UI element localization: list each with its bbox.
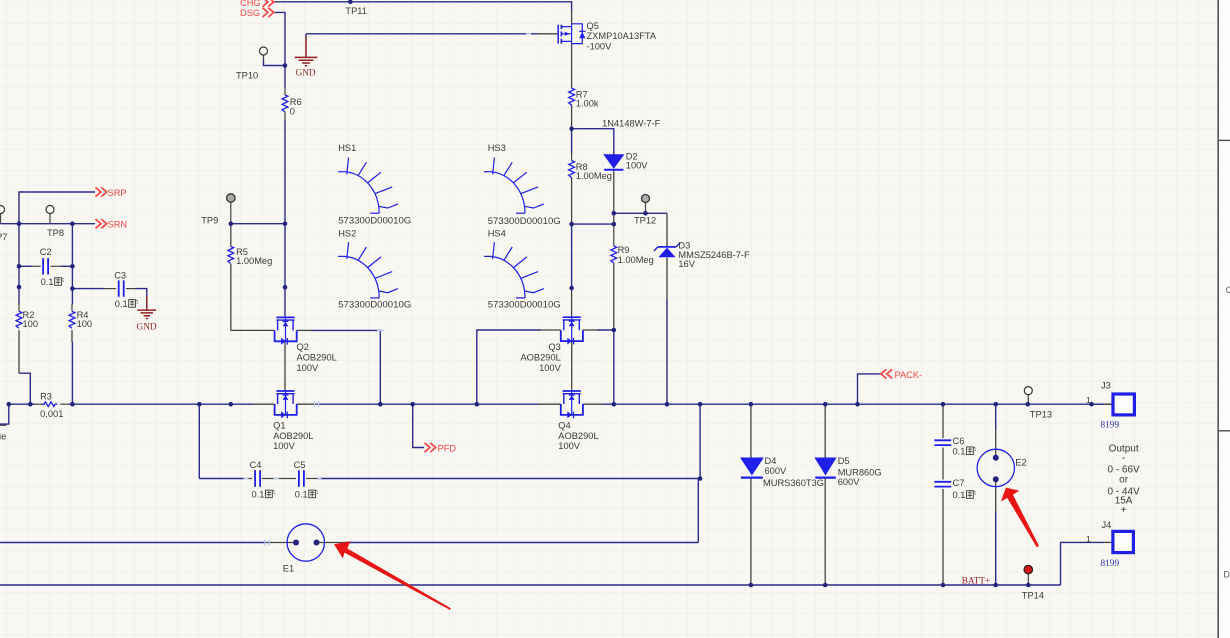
- svg-text:SRP: SRP: [108, 188, 127, 198]
- resistor R3 (horizontal): [42, 402, 58, 407]
- svg-text:TP11: TP11: [345, 6, 367, 16]
- wire R3 right pin: [60, 403, 69, 405]
- wire junction down to R8: [571, 129, 573, 153]
- test point TP13: [1024, 387, 1032, 395]
- wire riser bus to E1 row: [698, 404, 700, 542]
- svg-text:0.1: 0.1: [295, 490, 308, 500]
- resistor R7: [569, 88, 575, 105]
- wire TP10 lead: [263, 55, 265, 61]
- wire R8 row to D2/R9 column: [572, 223, 614, 225]
- wire DSG to R6 column: [274, 12, 286, 65]
- wire cap row to riser: [318, 478, 701, 480]
- svg-text:R6: R6: [290, 97, 302, 107]
- svg-text:-100V: -100V: [587, 41, 613, 51]
- svg-text:GND: GND: [137, 323, 157, 333]
- capacitor C4: [255, 470, 260, 486]
- node TP10 junction: [283, 63, 288, 68]
- svg-text:GND: GND: [296, 69, 316, 79]
- svg-text:Q4: Q4: [558, 420, 570, 430]
- heatsink HS4: [484, 242, 544, 298]
- svg-text:AOB290L: AOB290L: [273, 431, 313, 441]
- node column stub B: [569, 286, 574, 291]
- heatsink HS1: [338, 158, 398, 214]
- svg-text:TP12: TP12: [634, 215, 656, 225]
- wire E1 left pin black: [265, 542, 293, 544]
- wire bottom row corner up to J4: [1061, 542, 1105, 585]
- svg-text:8199: 8199: [1101, 559, 1120, 569]
- svg-text:100V: 100V: [297, 363, 320, 373]
- svg-text:100V: 100V: [626, 161, 649, 171]
- wire left column SRP down through C2 row: [18, 224, 20, 267]
- svg-text:0.1: 0.1: [41, 277, 54, 287]
- svg-text:1: 1: [1086, 534, 1091, 544]
- svg-text:HS3: HS3: [488, 143, 506, 153]
- wire main bus segment 1: [9, 403, 35, 405]
- wire E2 column top: [995, 404, 997, 430]
- node SRN row junction 2: [70, 221, 75, 226]
- svg-text:0.1: 0.1: [953, 490, 966, 500]
- svg-text:MURS360T3G: MURS360T3G: [763, 478, 824, 488]
- svg-text:100: 100: [23, 319, 39, 329]
- svg-text:600V: 600V: [838, 477, 861, 487]
- wire D5 column top: [824, 404, 826, 457]
- resistor R6: [282, 95, 288, 112]
- resistor R9: [611, 246, 617, 263]
- node C3 row junction: [70, 286, 75, 291]
- sheet border right edge: [1217, 0, 1219, 638]
- wire Q4 left pin on bus: [538, 403, 561, 405]
- node SRN row junction 1: [17, 221, 22, 226]
- svg-text:1.00Meg: 1.00Meg: [236, 256, 272, 266]
- ground symbol top GND: [295, 57, 318, 65]
- svg-text:D: D: [1224, 570, 1230, 580]
- transistor Q1 AOB290L: [275, 391, 297, 418]
- wire column below R8 row to Q3: [571, 224, 573, 288]
- svg-text:or: or: [1119, 474, 1129, 485]
- diode D2 1N4148W-7-F: [603, 154, 624, 169]
- label Output block: [1107, 444, 1140, 517]
- svg-text:TP9: TP9: [201, 216, 218, 226]
- wire GND stem (dark red): [305, 37, 307, 58]
- wire TP14 stem: [1027, 574, 1029, 586]
- wire C6/C7 column: [942, 404, 944, 438]
- heatsink HS2: [338, 242, 398, 298]
- wire bus to PACK- port: [858, 374, 882, 404]
- transistor Q2 AOB290L: [275, 317, 297, 344]
- sheet border zone tick 2: [1218, 139, 1230, 141]
- svg-text:C2: C2: [40, 247, 52, 257]
- diode D3 MMSZ5246B-7-F zener: [658, 248, 675, 258]
- svg-text:CHG: CHG: [240, 0, 261, 8]
- wire Q4 right pin on bus: [583, 403, 605, 405]
- svg-text:D4: D4: [765, 456, 777, 466]
- resistor R4: [69, 311, 75, 328]
- wire TP12 stem: [645, 202, 647, 213]
- svg-text:R3: R3: [40, 391, 52, 401]
- transistor Q5 ZXMP10A13FTA: [558, 24, 585, 44]
- svg-text:Q1: Q1: [273, 420, 285, 430]
- capacitor C3: [119, 280, 124, 296]
- svg-text:P7: P7: [0, 232, 7, 242]
- svg-text:100V: 100V: [273, 441, 296, 451]
- wire TP7 stem: [0, 213, 2, 223]
- wire E1 row right to riser: [345, 542, 698, 544]
- wire compile cross marks (light blue): [244, 34, 532, 546]
- svg-text:J4: J4: [1102, 520, 1112, 530]
- svg-text:TP14: TP14: [1022, 590, 1044, 600]
- wire main bus segment 2: [69, 403, 253, 405]
- wire left edge component pin stub: [0, 424, 6, 426]
- wire TP8 stem: [49, 213, 51, 223]
- svg-text:R9: R9: [618, 245, 630, 255]
- diode D4 MURS360T3G: [740, 458, 764, 476]
- wire Q5 drain pin (black): [571, 10, 573, 24]
- wire R6 bottom to TP9 row and down to Q2: [284, 112, 286, 121]
- svg-text:100V: 100V: [539, 363, 562, 373]
- wire left column down to R2: [18, 266, 20, 304]
- node D2/TP12 junction: [612, 211, 617, 216]
- resistor R2: [16, 311, 22, 328]
- capacitor C6: [934, 440, 951, 445]
- svg-text:TP13: TP13: [1030, 410, 1052, 420]
- connector E1: [287, 524, 324, 561]
- wire Q2 gate row black R5 col to Q2 box: [231, 329, 275, 331]
- wire D2 cathode down to TP12 row: [613, 170, 615, 224]
- capacitor C7: [934, 482, 951, 487]
- wire Q5 gate net from GND: [306, 33, 539, 35]
- wire R9 column: R8 row down through R9 to Q3 gate row: [613, 224, 615, 246]
- wire TP9 stem: [230, 202, 232, 224]
- svg-text:573300D00010G: 573300D00010G: [488, 300, 561, 311]
- svg-text:PACK-: PACK-: [895, 370, 923, 380]
- diode D5 MUR860G: [814, 458, 836, 476]
- port arrow DSG: [263, 8, 274, 17]
- annotation red arrow at E2: [1001, 488, 1039, 548]
- node TP12 stem junction: [643, 211, 648, 216]
- svg-text:J3: J3: [1101, 381, 1111, 391]
- node R8 row right junction: [612, 222, 617, 227]
- svg-text:C5: C5: [294, 460, 306, 470]
- wire E1 right pin black: [319, 542, 346, 544]
- test point TP8: [46, 206, 54, 214]
- svg-text:HS4: HS4: [488, 229, 506, 239]
- svg-text:C: C: [1226, 285, 1230, 295]
- svg-text:0.1: 0.1: [115, 299, 128, 309]
- wire bus drop to cap row: [198, 404, 200, 478]
- wire D5 column bottom: [824, 478, 826, 585]
- connector J4 8199: [1113, 531, 1134, 552]
- svg-text:E2: E2: [1015, 458, 1026, 468]
- svg-text:HS2: HS2: [338, 229, 356, 239]
- wire GND mid stem (dark red): [146, 296, 148, 310]
- svg-text:D5: D5: [838, 456, 850, 466]
- svg-text:Q5: Q5: [587, 21, 599, 31]
- resistor R5: [228, 247, 234, 264]
- wire main bus segment 4 to J3: [604, 403, 1112, 405]
- port arrow PFD: [425, 443, 436, 452]
- svg-text:Q2: Q2: [297, 342, 309, 352]
- wire bus to PFD port: [413, 404, 424, 447]
- test point TP10: [260, 47, 268, 55]
- svg-text:1.00k: 1.00k: [576, 99, 599, 109]
- wire TP9 row to R6 column: [231, 223, 285, 225]
- wire D4 column top: [750, 404, 752, 457]
- wire TP13 stem: [1027, 395, 1029, 405]
- wire mid column TP8 row down through C2/C3 rows to R4: [71, 224, 73, 289]
- wire Q1 left pin on bus: [252, 403, 274, 405]
- wire C5 right pin: [306, 478, 318, 480]
- svg-text:100: 100: [77, 319, 93, 329]
- wire Q3 gate left drop to bus: [541, 329, 561, 331]
- wire C4-C5 link: [262, 478, 296, 480]
- wire main bus segment 3: [317, 403, 539, 405]
- node Q3 gate / R9 junction: [612, 328, 617, 333]
- svg-text:C4: C4: [250, 460, 262, 470]
- svg-text:+: +: [1121, 505, 1127, 516]
- svg-text:573300D00010G: 573300D00010G: [338, 300, 411, 311]
- svg-text:AOB290L: AOB290L: [558, 431, 598, 441]
- svg-text:0.1: 0.1: [953, 446, 966, 456]
- wire C2 row right pin: [51, 265, 62, 267]
- svg-text:ZXMP10A13FTA: ZXMP10A13FTA: [587, 31, 657, 41]
- capacitor C2: [43, 258, 48, 274]
- transistor Q3 AOB290L: [561, 317, 583, 344]
- wire Q3 right corner to R9 column: [583, 329, 598, 331]
- svg-text:AOB290L: AOB290L: [297, 353, 337, 363]
- wire E1 row left: [0, 542, 266, 544]
- capacitor C5: [299, 470, 304, 486]
- svg-text:DSG: DSG: [240, 8, 260, 18]
- svg-text:Q3: Q3: [548, 342, 560, 352]
- node column stub A: [283, 285, 288, 290]
- svg-text:BATT+: BATT+: [962, 577, 991, 587]
- test point TP7 (partial at left edge): [0, 206, 5, 214]
- svg-text:AOB290L: AOB290L: [520, 353, 560, 363]
- svg-text:100V: 100V: [558, 441, 581, 451]
- wire bottom row BATT+: [0, 584, 1061, 586]
- svg-text:0.1: 0.1: [252, 490, 265, 500]
- wire R2 jog from resistor bottom to bus: [18, 330, 20, 373]
- wire R7/R8 junction row to D2 column: [572, 129, 614, 155]
- wire C3 row from mid column to cap: [72, 288, 104, 290]
- svg-text:1.00Meg: 1.00Meg: [618, 255, 654, 265]
- port arrow CHG: [263, 0, 274, 7]
- test point TP9 (grey): [227, 194, 235, 202]
- node bus junctions: [7, 402, 12, 407]
- wire cap row left to C4: [199, 478, 243, 480]
- node cap row junction: [698, 476, 703, 481]
- svg-text:TP10: TP10: [236, 71, 258, 81]
- wire R5 column black down through R5 to Q2 gate row: [230, 224, 232, 247]
- annotation red arrow at E1: [334, 541, 451, 610]
- test point TP12 (grey): [642, 195, 650, 203]
- wire E2 column bottom: [995, 481, 997, 512]
- connector J3 8199: [1113, 394, 1134, 415]
- wire main bus left entry L: [0, 404, 9, 424]
- svg-text:TP8: TP8: [47, 228, 64, 238]
- svg-text:1: 1: [1086, 395, 1091, 405]
- ground symbol mid GND: [137, 310, 156, 318]
- node TP9 row / R6 column junction: [283, 221, 288, 226]
- test point TP14 (red): [1024, 565, 1032, 573]
- node column stub C: [17, 285, 22, 290]
- wire D3 column from TP12 row down through D3 to bus: [666, 213, 668, 247]
- wire C3 right pin to GND: [126, 288, 136, 290]
- wire C2 row left pin: [19, 265, 32, 267]
- svg-text:PFD: PFD: [438, 444, 457, 454]
- node R8 row left junction: [569, 222, 574, 227]
- node TP11 junction: [348, 0, 353, 4]
- wire R6 column TP10 junction down to R6: [284, 66, 286, 88]
- transistor Q4 AOB290L: [561, 391, 583, 418]
- node TP9 junction: [229, 221, 234, 226]
- svg-text:HS1: HS1: [338, 143, 356, 153]
- svg-text:C6: C6: [953, 436, 965, 446]
- wire SRN row TP7 to port: [1, 223, 96, 225]
- svg-text:573300D00010G: 573300D00010G: [338, 215, 411, 226]
- port arrow SRN: [96, 219, 107, 228]
- svg-text:-: -: [1122, 453, 1125, 464]
- svg-text:8199: 8199: [1101, 420, 1120, 430]
- svg-text:1.00Meg: 1.00Meg: [576, 171, 612, 181]
- svg-text:1N4148W-7-F: 1N4148W-7-F: [602, 118, 661, 128]
- port arrow SRP: [96, 187, 107, 196]
- svg-text:SRN: SRN: [108, 220, 128, 230]
- node R7/R8/D2 junction: [569, 126, 574, 131]
- wire top rail CHG net: [274, 2, 572, 11]
- wire Q3-Q4 source-drain link: [571, 342, 573, 391]
- svg-text:0: 0: [290, 107, 295, 117]
- wire Q5 source pin down to R7: [571, 44, 573, 89]
- node bottom row junctions: [749, 583, 754, 588]
- wire R3 left pin: [34, 403, 43, 405]
- heatsink HS3: [484, 158, 544, 214]
- port arrow PACK-: [881, 369, 892, 378]
- svg-text:16V: 16V: [678, 259, 695, 269]
- sheet border zone tick: [1218, 430, 1230, 432]
- wire Q1 right pin on bus: [297, 403, 318, 405]
- svg-text:C3: C3: [114, 271, 126, 281]
- node C2 row junctions: [17, 264, 22, 269]
- wire SRP port: [19, 192, 95, 224]
- wire TP12 row from D2 column to D3 column: [614, 212, 667, 214]
- svg-text:E1: E1: [283, 563, 294, 573]
- svg-text:573300D00010G: 573300D00010G: [488, 216, 561, 227]
- svg-text:0.001: 0.001: [40, 409, 63, 419]
- svg-text:ie: ie: [0, 432, 6, 442]
- resistor R8: [569, 161, 575, 178]
- wire R7 bottom to junction: [571, 105, 573, 129]
- wire Q2-Q1 source-drain link: [284, 342, 286, 391]
- wire D4 column bottom: [750, 478, 752, 585]
- connector E2: [977, 449, 1014, 486]
- svg-text:600V: 600V: [765, 466, 788, 476]
- wire R8 bottom to junction row: [571, 177, 573, 224]
- wire R4 bottom to bus: [71, 330, 73, 342]
- wire Q2 right corner down to bus: [297, 329, 312, 331]
- wire J4 pin (black): [1104, 541, 1112, 543]
- svg-text:C7: C7: [953, 478, 965, 488]
